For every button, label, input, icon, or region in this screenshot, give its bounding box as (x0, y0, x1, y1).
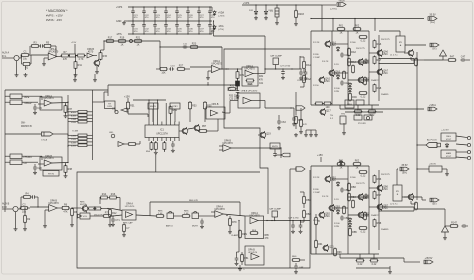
svg-text:(+75V): (+75V) (218, 16, 225, 18)
relay box RY B (393, 185, 402, 201)
rail 3 B (347, 166, 349, 254)
svg-text:UPC4570: UPC4570 (249, 215, 260, 218)
svg-text:R27: R27 (179, 65, 184, 68)
svg-text:GND: GND (116, 20, 122, 23)
value label col10 A (360, 63, 368, 65)
rail 3 A (347, 31, 349, 105)
outlet wires (456, 136, 467, 158)
pad group 2 (68, 134, 93, 147)
svg-text:R71: R71 (105, 212, 110, 215)
svg-text:+35.5V: +35.5V (429, 163, 437, 165)
svg-text:-VDA: -VDA (218, 25, 224, 28)
svg-text:B-SW: B-SW (71, 116, 76, 118)
wire B bottom out (404, 261, 420, 263)
svg-text:R14: R14 (102, 193, 107, 196)
mid res pair (315, 102, 332, 109)
mute box M1 (148, 103, 158, 122)
svg-text:UPC1237H: UPC1237H (156, 134, 168, 136)
svg-text:4570: 4570 (88, 50, 94, 53)
transistor Q3 (81, 205, 88, 213)
svg-text:CAP CLAMP: CAP CLAMP (269, 207, 282, 210)
svg-text:R15: R15 (103, 55, 108, 58)
wire row main1 (136, 215, 156, 216)
value label col5 B (322, 196, 329, 198)
wire base tie5 A (369, 52, 379, 54)
bus B feedback wire (340, 254, 404, 262)
wire base tie4 A (348, 79, 369, 81)
op-amp U2b boxed (236, 65, 258, 86)
svg-text:0.22: 0.22 (358, 263, 363, 266)
svg-text:L2 2.7u: L2 2.7u (390, 204, 398, 206)
svg-text:(B-): (B-) (433, 202, 437, 205)
svg-text:0.22: 0.22 (356, 114, 361, 117)
capacitor C28 top row (208, 6, 215, 21)
thermal labels (330, 115, 334, 120)
cap CJ2 (200, 219, 204, 229)
connector arrow box (41, 132, 68, 141)
amp B feed res (315, 214, 321, 232)
svg-text:1.0K: 1.0K (184, 213, 189, 215)
diode DM2 A (348, 87, 351, 92)
wire drop 2 (354, 19, 356, 32)
diode DM1 B (348, 217, 351, 222)
ground U1a (42, 58, 46, 66)
svg-text:0.22: 0.22 (361, 96, 366, 99)
bias transistor QB1 (319, 108, 331, 116)
resistor R7 (61, 51, 70, 61)
transistor QB1 (324, 175, 336, 183)
svg-text:IC1: IC1 (160, 129, 164, 132)
op-amp U1b (30, 199, 62, 211)
res R81 (241, 252, 250, 265)
svg-text:MAIN: MAIN (446, 152, 452, 155)
svg-text:CAP: CAP (248, 83, 253, 86)
svg-text:RB2: RB2 (306, 213, 311, 216)
capacitor C35 bottom row (175, 21, 182, 35)
svg-text:1/2W: 1/2W (334, 91, 339, 93)
svg-text:STBY: STBY (172, 106, 178, 108)
resistor R203 (294, 5, 304, 26)
svg-text:35.5V: 35.5V (429, 14, 436, 17)
svg-text:R147: R147 (451, 222, 457, 225)
rail 4 A (368, 31, 370, 105)
wire sel1 out (93, 92, 109, 102)
diode DB1 A (336, 46, 339, 51)
res R71 (103, 212, 113, 218)
svg-text:CA1: CA1 (344, 54, 349, 57)
svg-text:UPC4570: UPC4570 (244, 68, 255, 71)
feedback resistor R4 (20, 193, 31, 209)
svg-text:VOLT: VOLT (446, 156, 452, 158)
U2b below labels (229, 95, 240, 100)
transformer box lower (441, 150, 456, 158)
svg-text:CTL A: CTL A (41, 138, 48, 141)
ground U1b (43, 210, 47, 228)
mute labels B (80, 201, 87, 206)
svg-text:R 330: R 330 (313, 189, 319, 191)
title text block (46, 9, 68, 22)
resistor R1 shunt (22, 55, 32, 70)
res R40 vert (67, 162, 68, 163)
svg-text:C63: C63 (281, 121, 286, 124)
svg-text:D 1S: D 1S (334, 199, 339, 201)
svg-text:SW-: SW- (21, 123, 26, 125)
bottom rail resistor R91 (315, 232, 324, 254)
svg-text:CB1: CB1 (344, 189, 349, 192)
capacitor C23 top row (153, 6, 160, 21)
wire base tie6 A (369, 71, 379, 73)
control arrow (112, 108, 127, 112)
svg-text:+VDA: +VDA (338, 0, 345, 3)
resistor RB3 B (364, 212, 367, 221)
U2b side labels (259, 76, 264, 85)
svg-text:MUTE: MUTE (192, 226, 199, 228)
U2b inner resistor (246, 79, 255, 86)
resistor RT1 B (337, 160, 346, 170)
wire bottom tie B (311, 253, 379, 255)
wire base tie1 A (332, 43, 348, 45)
input select box 2a (5, 154, 42, 159)
rail 1 A (310, 31, 312, 105)
svg-text:A-SW: A-SW (71, 111, 76, 114)
svg-text:R23: R23 (192, 43, 197, 46)
svg-text:1-SW: 1-SW (71, 136, 76, 138)
diode DM1 A (348, 82, 351, 87)
feedback terminal A (428, 104, 437, 111)
svg-text:C19: C19 (37, 107, 42, 110)
emitter resistor RE1 A (359, 36, 368, 43)
capacitor C36 bottom row (186, 21, 193, 35)
value label col3 A (356, 48, 366, 50)
relay drv box (105, 101, 116, 109)
svg-text:2SA985: 2SA985 (381, 228, 389, 231)
input select box 2b (5, 160, 38, 165)
op-amp U4a boxed (206, 103, 225, 119)
capacitor C33 bottom row (153, 21, 160, 35)
svg-text:UPC4570: UPC4570 (211, 63, 222, 66)
relay driver boxes (354, 115, 372, 125)
output wire A upper (378, 55, 414, 60)
svg-text:0.22: 0.22 (361, 231, 366, 234)
value label col6 B (350, 177, 356, 179)
op-amp U6c (211, 205, 245, 217)
op-amp U1a (31, 48, 62, 60)
capacitor C38 bottom row (208, 21, 215, 35)
bottom res R93 (334, 248, 343, 257)
op-amp U6a boxed (113, 202, 136, 220)
diode pair amp B (339, 160, 342, 166)
svg-text:RB3: RB3 (351, 186, 356, 189)
ground U2a (206, 71, 210, 80)
wire base tie3 B (348, 196, 369, 198)
svg-text:RES CAP: RES CAP (123, 221, 133, 224)
resistor R25 (156, 68, 168, 75)
svg-text:L1 2.7u: L1 2.7u (390, 55, 398, 57)
input resistor RL2 B (303, 210, 312, 222)
svg-text:10u: 10u (22, 211, 27, 214)
svg-text:VOL: VOL (83, 216, 88, 218)
LPF cluster bottom right (292, 256, 305, 274)
speaker terminal A+ (428, 14, 437, 24)
svg-text:10K: 10K (161, 72, 166, 75)
capacitor comp2 B (340, 215, 349, 220)
svg-text:#VPS : +15V: #VPS : +15V (46, 14, 63, 18)
wire base tie1 B (332, 178, 348, 180)
resistor R10b (88, 207, 97, 210)
svg-text:C71: C71 (115, 219, 120, 222)
svg-text:BIAS: BIAS (347, 103, 352, 106)
U6b side labels (265, 235, 270, 240)
wire base tie2 A (332, 72, 348, 74)
transistor QB5 (357, 211, 369, 219)
resistor RT1 A (337, 25, 346, 35)
svg-text:RES: RES (252, 230, 257, 232)
svg-text:2SC: 2SC (383, 188, 388, 191)
svg-text:4-SW: 4-SW (71, 146, 76, 148)
svg-text:(A-): (A-) (433, 47, 437, 50)
svg-text:RA6: RA6 (377, 43, 382, 46)
value label col9 A (334, 64, 339, 66)
wire base tie2 B (332, 207, 348, 209)
svg-text:(-75V): (-75V) (218, 29, 224, 31)
sw matrix label (21, 123, 32, 128)
rail 4 B (368, 166, 370, 254)
op-amp U2a (190, 60, 229, 72)
value label col2 B (334, 223, 340, 228)
svg-text:0.22: 0.22 (361, 40, 366, 43)
bias resistor chain (294, 92, 303, 137)
resistor RT2 A (353, 25, 362, 35)
capacitor C13 (169, 65, 175, 70)
power rail x417 (416, 52, 418, 200)
svg-text:+-: +- (243, 269, 245, 271)
wire rail right end (322, 5, 336, 31)
cap C20 (33, 164, 42, 174)
svg-text:1K: 1K (137, 44, 140, 47)
post resistors A2 (368, 105, 377, 117)
under-DIP cap CUa (171, 141, 175, 152)
resistor RM2 A (348, 58, 357, 67)
resistor RD3 A (373, 84, 382, 93)
rail 2 A (331, 31, 333, 105)
input resistor RL2 A (303, 75, 312, 87)
svg-text:CAP: CAP (299, 266, 304, 269)
sense circle A (366, 116, 369, 119)
wire to SPK A- (405, 44, 426, 46)
zobel resistor R147 (445, 222, 468, 228)
capacitor C32 bottom row (142, 21, 149, 35)
under-DIP res RUa (146, 141, 153, 153)
svg-text:IN R: IN R (2, 206, 7, 209)
svg-text:R12: R12 (112, 212, 117, 215)
svg-text:R51: R51 (130, 104, 135, 107)
output wire B lower (378, 207, 414, 212)
clamp cap C63 (277, 115, 286, 130)
output wire A lower (378, 59, 424, 65)
svg-text:R02: R02 (355, 25, 360, 28)
wire -VDA rail (214, 36, 266, 49)
AC plug symbol (416, 139, 440, 148)
op-amp U6b boxed (245, 212, 267, 238)
value label col7 A (381, 39, 391, 41)
svg-text:1K: 1K (340, 32, 343, 35)
ground G6 (93, 74, 97, 82)
svg-text:2SC2275: 2SC2275 (381, 39, 391, 41)
post resistors A1 (354, 105, 363, 117)
diode DM2 B (348, 222, 351, 227)
+15V control label (124, 95, 130, 102)
transistor QB6 (376, 184, 388, 192)
value label col1 A (313, 54, 321, 59)
arrow to amp B input (290, 167, 305, 171)
zener protection B (442, 222, 449, 240)
svg-text:RB5: RB5 (352, 231, 357, 234)
wire stage A up (101, 41, 105, 50)
capacitor C31 bottom row (131, 21, 138, 35)
feedback row B2 (100, 193, 120, 210)
svg-text:OPA A: OPA A (126, 202, 133, 205)
capacitor CB1 B (364, 193, 368, 198)
transistor Q12 (188, 124, 200, 132)
svg-text:RB6: RB6 (377, 178, 382, 181)
under-DIP res RUb (154, 141, 158, 154)
bias box mid (345, 100, 354, 108)
svg-text:R: R (318, 220, 320, 223)
wire bottom row exit (285, 220, 310, 222)
res R39 vert (67, 102, 68, 103)
arrow to amp A input (296, 106, 305, 110)
svg-text:R57: R57 (202, 126, 207, 128)
svg-text:CTL: CTL (112, 108, 117, 110)
input jack A (14, 55, 21, 60)
svg-text:1K: 1K (356, 32, 359, 35)
resistor RD2 B (373, 191, 382, 200)
svg-text:RA2: RA2 (306, 78, 311, 81)
capacitor C24 top row (164, 6, 171, 21)
cap C15 (236, 89, 240, 98)
value label col3 B (356, 183, 366, 185)
resistor RB1 A (343, 71, 346, 80)
svg-text:10u: 10u (23, 58, 28, 61)
wire bus to matrix (5, 133, 42, 135)
coupling cap C1 (17, 51, 30, 61)
svg-text:TH: TH (330, 115, 333, 117)
svg-text:R17: R17 (108, 37, 113, 40)
res R75 (156, 210, 165, 217)
signal row right (265, 68, 300, 69)
resistor R12b vert (108, 209, 117, 227)
cap clamp C25 (270, 54, 283, 69)
output transistor QB8 (404, 193, 418, 210)
zener D31 (249, 5, 258, 20)
zobel capacitor C47 (460, 56, 470, 62)
res R35 (228, 84, 238, 90)
svg-text:Q21: Q21 (329, 246, 334, 249)
resistor R27 (177, 65, 190, 71)
svg-text:R81: R81 (244, 257, 249, 260)
control resistor R51 (127, 101, 136, 114)
value label col6 A (350, 42, 356, 44)
wire relay B top (397, 169, 398, 185)
wire base tie6 B (369, 206, 379, 208)
value label col12 A (313, 85, 319, 87)
wire y41 run (103, 40, 160, 41)
svg-text:1K: 1K (356, 167, 359, 170)
svg-text:R203: R203 (298, 13, 304, 16)
svg-text:RA1: RA1 (306, 64, 311, 67)
wire row B right (104, 208, 112, 209)
cap clamp C75 (269, 207, 282, 221)
resistor RT2 B (353, 160, 362, 170)
resistor R6b (61, 204, 70, 214)
cap C27 (280, 66, 291, 80)
IC1 UPC1237 protection IC (145, 122, 179, 142)
emitter resistor RE1 B (359, 171, 368, 178)
svg-text:R11: R11 (78, 64, 83, 67)
svg-text:R37: R37 (68, 108, 73, 111)
caps C77 C79 (288, 217, 303, 234)
jumper box J2 (192, 212, 211, 228)
svg-text:2SC: 2SC (325, 215, 330, 218)
feedback loop wire (159, 46, 222, 47)
svg-text:1K: 1K (121, 44, 124, 47)
input select box 1a (5, 94, 42, 99)
output transistor QA8 (404, 49, 418, 66)
wire U4a to U4c (225, 101, 238, 114)
transformer box upper (441, 129, 456, 141)
svg-text:R47: R47 (450, 56, 455, 59)
svg-text:C21: C21 (259, 83, 264, 85)
svg-text:+15V: +15V (124, 95, 130, 98)
value label col9 B (334, 199, 339, 201)
feedback res R23 (190, 43, 222, 69)
input resistor RL1 A (303, 57, 312, 73)
fuse F2 (270, 5, 279, 25)
mute box M2 (170, 103, 180, 122)
svg-text:R 100: R 100 (334, 88, 340, 90)
transistor QA5 (357, 76, 369, 84)
capacitor comp1 B (340, 187, 349, 192)
svg-text:RB1: RB1 (306, 199, 311, 202)
connector bus wire 1 (67, 95, 68, 157)
svg-text:C47: C47 (461, 56, 466, 59)
resistor R13 (77, 54, 86, 61)
svg-text:RES: RES (292, 256, 297, 258)
op-amp U3b (38, 155, 68, 170)
feedback terminal B (424, 257, 433, 264)
svg-text:2SC: 2SC (383, 53, 388, 56)
value label col4 B (371, 214, 379, 217)
svg-text:TUNER: TUNER (24, 103, 32, 105)
svg-text:C29 C31: C29 C31 (297, 80, 306, 82)
bottom transistor Q21 (322, 244, 334, 252)
wire to SPK B- (402, 197, 426, 200)
svg-text:RB4: RB4 (351, 196, 356, 199)
svg-text:0.22: 0.22 (372, 263, 377, 266)
svg-text:+VPS: +VPS (243, 2, 250, 5)
post resistors B1 (356, 254, 365, 266)
driver transistor Q19 (258, 131, 271, 139)
svg-text:RA7: RA7 (377, 59, 382, 62)
svg-text:2SA872: 2SA872 (371, 214, 379, 217)
supply rails of capacitor bank (116, 6, 212, 36)
wire y41 to ladder (159, 41, 161, 69)
capacitor C26 top row (186, 6, 193, 21)
svg-text:RA5: RA5 (352, 96, 357, 99)
svg-text:CD: CD (24, 163, 28, 165)
svg-text:+-12.5V: +-12.5V (441, 129, 449, 131)
svg-text:R 330: R 330 (313, 54, 319, 56)
